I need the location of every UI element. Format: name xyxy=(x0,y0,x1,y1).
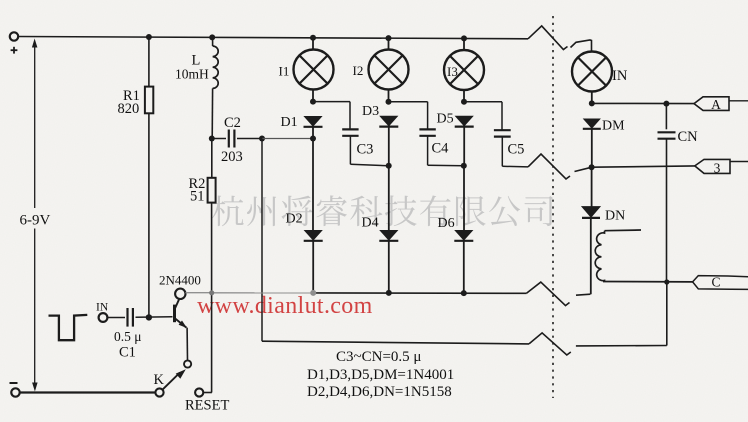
wire lamp I3 to node xyxy=(463,90,465,102)
wire D1 to mid node xyxy=(312,127,314,139)
node C2 right xyxy=(259,136,265,142)
svg-text:www.dianlut.com: www.dianlut.com xyxy=(197,293,373,319)
svg-text:A: A xyxy=(711,97,721,112)
wire R1 bottom to C1 node xyxy=(148,113,150,317)
node stage3 mid xyxy=(461,163,467,169)
diode D1 xyxy=(305,117,322,127)
wire D3 to mid node xyxy=(388,127,390,166)
capacitor C3 xyxy=(349,102,351,130)
wire C5 bottom xyxy=(502,165,528,168)
wire lower bus up to C line xyxy=(666,282,668,345)
node stage2 bus xyxy=(386,290,392,296)
node stage3 top xyxy=(461,99,467,105)
node A CN junction xyxy=(663,101,669,107)
wire C3 bottom xyxy=(350,164,388,166)
node C line junction xyxy=(664,279,669,284)
wire C2 down to lower bus xyxy=(261,139,263,342)
node upper bus R2 junction xyxy=(209,290,214,295)
resistor R2 xyxy=(208,178,216,203)
wire D5 to mid node xyxy=(463,127,465,166)
node stage1 top xyxy=(310,99,316,105)
node stageN top xyxy=(589,100,595,106)
svg-text:IN: IN xyxy=(612,68,628,84)
diode DN xyxy=(582,207,600,218)
terminal RESET xyxy=(195,388,203,396)
wire lamp I1 to node xyxy=(312,90,314,102)
wire lower bus break left xyxy=(529,333,571,355)
svg-text:6-9V: 6-9V xyxy=(20,213,51,229)
wire B line xyxy=(592,166,695,167)
watermark chinese company text xyxy=(212,195,553,226)
svg-text:CN: CN xyxy=(678,129,699,145)
wire C2 node to D1 node xyxy=(262,138,313,140)
svg-text:I2: I2 xyxy=(353,63,364,78)
node top rail L tap xyxy=(209,34,215,40)
capacitor C5 xyxy=(501,102,503,130)
transistor Q1 collector circle xyxy=(175,289,185,299)
diode D4 xyxy=(380,231,397,241)
lamp IN xyxy=(572,52,612,92)
wire top rail break left xyxy=(528,26,568,50)
svg-text:D1,D3,D5,DM=1N4001: D1,D3,D5,DM=1N4001 xyxy=(307,367,454,383)
capacitor C2 xyxy=(212,138,226,140)
svg-text:I1: I1 xyxy=(279,64,290,79)
scan noise texture xyxy=(0,0,1,1)
wire emitter down xyxy=(186,328,188,361)
diode D5 xyxy=(456,116,473,126)
svg-text:10mH: 10mH xyxy=(175,67,209,82)
wire DN down to bus hook xyxy=(590,218,592,294)
wire upper bus grey segment xyxy=(212,292,313,294)
node top rail lamp I1 tap xyxy=(310,35,316,41)
svg-text:DN: DN xyxy=(605,209,625,224)
capacitor C1 xyxy=(126,308,128,327)
svg-text:D5: D5 xyxy=(437,112,454,127)
svg-text:D4: D4 xyxy=(362,216,379,231)
wire C4 bottom xyxy=(428,164,464,167)
svg-text:C2: C2 xyxy=(224,115,241,131)
diode D6 xyxy=(455,231,472,241)
diode D2 xyxy=(305,231,322,241)
node C1 base junction xyxy=(146,314,152,320)
svg-text:RESET: RESET xyxy=(185,398,229,414)
terminal tag A xyxy=(694,97,729,111)
node stage2 top xyxy=(386,99,392,105)
wire C5 top xyxy=(464,101,502,103)
wire upper bus break left xyxy=(527,282,570,306)
wire top rail xyxy=(18,37,528,39)
wire lower bus break right xyxy=(576,345,667,347)
svg-text:0.5 μ: 0.5 μ xyxy=(114,329,142,344)
switch K blade xyxy=(162,373,180,390)
svg-text:C: C xyxy=(711,275,720,290)
wire D6 to bus xyxy=(463,242,465,294)
wire C4 top xyxy=(389,101,428,103)
svg-text:51: 51 xyxy=(190,189,205,205)
wire C5 break right xyxy=(575,167,592,171)
wire A line xyxy=(592,102,694,104)
wire stage1 mid to D2 xyxy=(312,139,314,231)
node stage1 bus xyxy=(310,290,316,296)
capacitor CN xyxy=(665,104,667,130)
wire upper bus xyxy=(313,292,527,294)
lamp I3 xyxy=(463,38,465,50)
svg-text:D2: D2 xyxy=(286,212,303,227)
svg-text:C5: C5 xyxy=(508,142,525,158)
svg-text:C1: C1 xyxy=(119,344,136,360)
wire DM to mid node xyxy=(591,129,593,167)
wire lamp IN to node xyxy=(591,92,593,104)
svg-text:D6: D6 xyxy=(438,216,455,231)
wire C3 top xyxy=(313,101,350,103)
wire C5 break left xyxy=(528,154,570,179)
node stage2 mid xyxy=(386,163,392,169)
wire R1 top xyxy=(148,37,150,87)
terminal tag C xyxy=(693,276,748,282)
node top rail R1 tap xyxy=(146,34,152,40)
wire stage3 mid to D6 xyxy=(463,166,465,231)
wire collector out xyxy=(186,292,213,294)
svg-text:IN: IN xyxy=(96,302,109,314)
resistor R1 xyxy=(145,87,153,114)
wire CN to C junction xyxy=(666,166,668,282)
wire top rail break right xyxy=(571,40,592,52)
node top rail lamp I3 tap xyxy=(461,35,467,41)
svg-text:C3~CN=0.5 μ: C3~CN=0.5 μ xyxy=(336,349,421,365)
wire R2 bottom to RESET xyxy=(211,203,213,393)
switch K pole xyxy=(155,388,163,396)
node top rail lamp I2 tap xyxy=(386,35,392,41)
wire RESET to R2 line xyxy=(203,392,212,394)
node stage3 bus xyxy=(461,290,467,296)
svg-text:D1: D1 xyxy=(281,115,298,130)
dotted separator line xyxy=(552,16,554,398)
wire lower bus xyxy=(262,341,529,344)
svg-text:K: K xyxy=(154,372,165,388)
capacitor C4 xyxy=(427,102,429,130)
wire R2 top xyxy=(211,139,213,178)
terminal tag B xyxy=(695,159,730,173)
lamp I2 xyxy=(388,38,390,49)
battery annotation arrow line 6-9V xyxy=(34,44,36,208)
wire stageN mid to DN xyxy=(591,167,593,206)
wire stage2 mid to D4 xyxy=(388,166,390,231)
svg-text:C4: C4 xyxy=(432,141,450,157)
svg-text:D2,D4,D6,DN=1N5158: D2,D4,D6,DN=1N5158 xyxy=(307,384,452,400)
terminal IN xyxy=(99,313,108,322)
wire lamp I2 to node xyxy=(388,90,390,102)
wire bottom rail xyxy=(20,391,156,393)
svg-text:DM: DM xyxy=(602,119,625,134)
terminal + (positive supply) xyxy=(10,32,18,40)
wire D2 to bus xyxy=(312,242,314,293)
wire C1 to base xyxy=(136,316,173,319)
node stageN mid xyxy=(589,164,595,170)
wire upper bus break right xyxy=(576,294,590,295)
wire coil bottom C line xyxy=(603,281,693,283)
pulse waveform symbol xyxy=(49,315,88,340)
node L bottom C2 tap xyxy=(209,136,215,142)
diode DM xyxy=(584,119,600,128)
svg-text:I3: I3 xyxy=(447,64,458,79)
lamp I1 xyxy=(312,38,314,50)
inductor L xyxy=(212,37,214,46)
svg-text:3: 3 xyxy=(714,161,721,176)
svg-text:C3: C3 xyxy=(357,142,374,158)
coil xyxy=(605,229,642,232)
diode D3 xyxy=(380,116,397,126)
node stage1 mid xyxy=(310,136,316,142)
svg-text:203: 203 xyxy=(221,149,243,165)
svg-text:2N4400: 2N4400 xyxy=(159,273,201,288)
switch K contact upper xyxy=(184,360,191,367)
wire IN to C1 xyxy=(107,317,125,319)
svg-text:D3: D3 xyxy=(362,104,379,119)
transistor Q1 xyxy=(173,305,176,323)
svg-text:820: 820 xyxy=(118,101,140,117)
wire D4 to bus xyxy=(388,242,390,293)
terminal - (negative supply) xyxy=(11,388,19,396)
